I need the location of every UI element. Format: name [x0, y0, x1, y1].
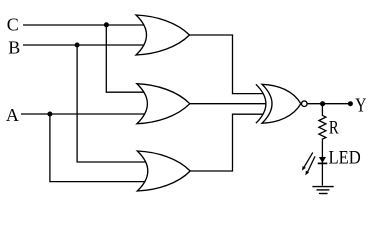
svg-text:A: A: [6, 105, 19, 125]
svg-text:Y: Y: [355, 95, 366, 116]
svg-text:C: C: [7, 15, 19, 35]
svg-text:R: R: [329, 119, 339, 139]
svg-text:LED: LED: [329, 149, 361, 169]
svg-text:B: B: [8, 37, 20, 57]
